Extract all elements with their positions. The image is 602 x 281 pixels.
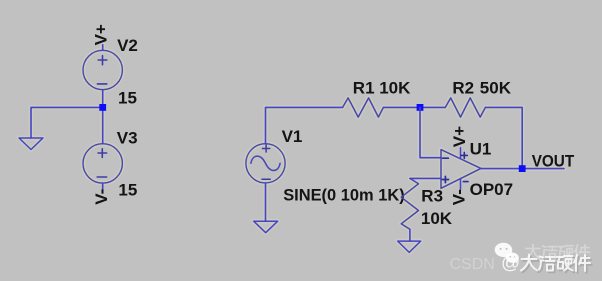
wire node B down to inverting input bbox=[420, 107, 441, 157]
svg-text:V+: V+ bbox=[91, 24, 110, 45]
voltage source V2 bbox=[83, 45, 122, 90]
wire R1 to node to R2 bbox=[383, 106, 445, 108]
svg-text:R3: R3 bbox=[421, 187, 443, 206]
wire R2 to VOUT node bbox=[485, 107, 522, 168]
watermark text (ghost) bbox=[525, 244, 589, 259]
svg-text:U1: U1 bbox=[470, 140, 492, 159]
svg-text:10K: 10K bbox=[379, 79, 411, 98]
wire op-amp output to VOUT bbox=[481, 168, 564, 170]
wire node to ground bbox=[31, 107, 103, 138]
node VOUT junction bbox=[519, 165, 526, 172]
voltage source V3 bbox=[83, 144, 122, 189]
svg-text:V1: V1 bbox=[282, 127, 303, 146]
svg-text:CSDN: CSDN bbox=[450, 256, 495, 273]
wire R3 to ground bbox=[409, 229, 411, 241]
svg-text:OP07: OP07 bbox=[470, 180, 513, 199]
svg-text:V3: V3 bbox=[117, 129, 138, 148]
op-amp U1 bbox=[441, 148, 481, 190]
svg-text:R1: R1 bbox=[353, 79, 375, 98]
svg-text:15: 15 bbox=[118, 89, 137, 108]
svg-text:V+: V+ bbox=[450, 126, 469, 147]
watermark wechat icon bbox=[495, 243, 519, 264]
wire V1 bottom to ground bbox=[265, 183, 267, 221]
svg-text:@: @ bbox=[501, 253, 520, 274]
wire noninverting input to R3 bbox=[410, 177, 441, 179]
svg-text:V2: V2 bbox=[117, 36, 138, 55]
svg-text:V-: V- bbox=[449, 189, 468, 205]
watermark text (bright) bbox=[521, 255, 590, 272]
wire V1 top to R1 bbox=[266, 107, 343, 143]
svg-text:VOUT: VOUT bbox=[532, 151, 575, 170]
wire V2 bottom to node to V3 top bbox=[102, 90, 104, 144]
svg-text:15: 15 bbox=[118, 181, 137, 200]
watermark text shadow bbox=[523, 256, 592, 273]
svg-text:10K: 10K bbox=[421, 209, 453, 228]
resistor R2 bbox=[445, 98, 485, 117]
svg-text:R2: R2 bbox=[452, 79, 474, 98]
resistor R1 bbox=[343, 98, 384, 117]
svg-text:SINE(0 10m 1K): SINE(0 10m 1K) bbox=[283, 185, 405, 204]
svg-text:V-: V- bbox=[92, 189, 111, 205]
node A junction bbox=[99, 104, 106, 111]
voltage source V1 bbox=[246, 144, 285, 183]
ground (below R3) bbox=[398, 241, 421, 252]
svg-text:50K: 50K bbox=[480, 79, 512, 98]
wire halo artifact bbox=[19, 45, 564, 253]
resistor R3 bbox=[401, 178, 418, 229]
ground (left) bbox=[19, 138, 43, 150]
node B junction bbox=[417, 104, 424, 111]
ground (below V1) bbox=[254, 221, 278, 233]
